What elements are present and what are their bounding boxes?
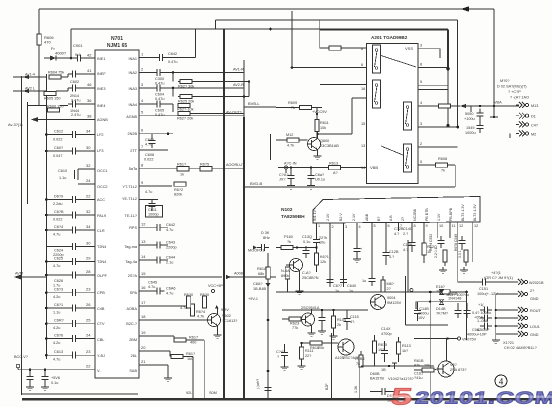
- svg-text:2.2 0.1: 2.2 0.1: [434, 248, 438, 258]
- svg-text:2.1V: 2.1V: [326, 213, 330, 221]
- node AV1-L input row: [13, 68, 95, 84]
- svg-text:T2N4: T2N4: [97, 245, 106, 249]
- node circled page number 41: [495, 375, 507, 387]
- svg-text:22: 22: [86, 194, 91, 199]
- svg-text:C612: C612: [54, 130, 63, 134]
- svg-text:2.47u: 2.47u: [71, 113, 81, 117]
- svg-text:R6?0: R6?0: [184, 293, 193, 297]
- svg-text:+4?(1: +4?(1: [491, 271, 501, 275]
- svg-text:C6A6: C6A6: [166, 287, 176, 291]
- svg-text:4000u+10P: 4000u+10P: [467, 333, 487, 337]
- svg-text:N-4A: N-4A: [281, 269, 290, 273]
- svg-text:4.?: 4.?: [403, 248, 408, 252]
- svg-text:VBA: VBA: [494, 101, 502, 105]
- capacitor C644 pin14 row: [139, 254, 175, 265]
- capacitor C643 pin13 row: [139, 239, 177, 250]
- svg-text:9 4: 9 4: [75, 53, 80, 57]
- svg-text:6: 6: [388, 224, 390, 228]
- svg-text:20k: 20k: [318, 346, 324, 350]
- svg-text:3: 3: [420, 122, 422, 126]
- diode D41B: [439, 292, 461, 304]
- svg-text:R6?5: R6?5: [378, 343, 387, 347]
- svg-text:400: 400: [190, 341, 196, 345]
- svg-text:C115: C115: [350, 315, 359, 319]
- svg-text:1N4148: 1N4148: [448, 297, 461, 301]
- svg-text:4.7k: 4.7k: [287, 144, 294, 148]
- svg-text:C602: C602: [70, 80, 79, 84]
- svg-text:68k: 68k: [258, 272, 264, 276]
- svg-text:C6?6: C6?6: [54, 334, 63, 338]
- svg-text:2: 2: [332, 225, 334, 229]
- svg-text:22: 22: [86, 364, 91, 369]
- svg-text:R62?-10k: R62?-10k: [177, 108, 194, 112]
- capacitor C630 row: [45, 333, 95, 346]
- svg-text:890k: 890k: [281, 274, 289, 278]
- svg-text:M6?: M6?: [387, 282, 394, 286]
- svg-text:M?0?: M?0?: [500, 79, 510, 83]
- svg-text:R61B: R61B: [414, 359, 424, 363]
- svg-text:C613: C613: [54, 350, 63, 354]
- capacitor C150 pin8: [403, 231, 416, 252]
- svg-text:30: 30: [86, 241, 91, 246]
- capacitor C628 row: [45, 302, 95, 315]
- wire second supply row: [416, 301, 467, 310]
- svg-text:1.3K: 1.3K: [354, 385, 358, 393]
- svg-text:Av-3?(1): Av-3?(1): [8, 123, 23, 127]
- svg-text:9.2V: 9.2V: [221, 308, 229, 312]
- svg-text:R61A: R61A: [257, 267, 267, 271]
- connector XS202 pin ROUT: [515, 307, 541, 313]
- svg-text:100u(+..12V: 100u(+..12V: [477, 292, 498, 296]
- svg-text:6: 6: [361, 63, 363, 67]
- svg-text:D41B: D41B: [448, 292, 458, 296]
- svg-text:Q600: Q600: [320, 139, 329, 143]
- resistor R631 bottom pair: [200, 293, 209, 308]
- svg-text:5050: 5050: [465, 112, 473, 116]
- svg-text:1.-05A: 1.-05A: [477, 319, 489, 323]
- svg-text:C151: C151: [479, 287, 488, 291]
- svg-text:4.7u: 4.7u: [53, 358, 60, 362]
- capacitor C616 decoupling: [41, 370, 60, 391]
- svg-text:25C8B?N: 25C8B?N: [302, 276, 319, 280]
- wire top bus: [39, 6, 494, 117]
- capacitor C610 row pin32: [58, 163, 95, 180]
- svg-text:B2 V: B2 V: [339, 213, 343, 221]
- svg-text:32: 32: [86, 209, 91, 214]
- wire A201 pin2 row: [418, 142, 458, 147]
- svg-text:4: 4: [420, 101, 422, 105]
- svg-text:D 3K: D 3K: [261, 231, 270, 235]
- svg-text:10u: 10u: [319, 241, 325, 245]
- svg-text:4?.: 4?.: [350, 320, 355, 324]
- svg-text:IN1 1V: IN1 1V: [313, 209, 317, 221]
- svg-text:B2F: B2F: [325, 383, 329, 390]
- wire second bus: [216, 20, 458, 127]
- svg-text:11: 11: [452, 224, 456, 228]
- capacitor C620 row: [45, 209, 95, 222]
- svg-text:M13: M13: [531, 104, 538, 108]
- capacitor C629 row: [45, 318, 95, 331]
- svg-text:AV2 L: AV2 L: [25, 87, 35, 91]
- wire vertical 359 to bottom: [354, 367, 360, 398]
- svg-text:21: 21: [141, 359, 146, 364]
- svg-text:C14X: C14X: [381, 327, 391, 331]
- svg-text:4: 4: [359, 225, 361, 229]
- svg-text:BVD-B: BVD-B: [250, 181, 263, 186]
- svg-text:2k: 2k: [337, 323, 341, 327]
- svg-text:C642: C642: [166, 223, 175, 227]
- wire right mid vertical bus: [243, 60, 245, 399]
- op-amp U1 IC N701 NJM2165 body: [95, 36, 139, 378]
- capacitor C146: [276, 344, 289, 371]
- node AV2-L input row: [13, 82, 95, 103]
- svg-text:V104: V104: [388, 377, 397, 381]
- capacitor C615 decoupling: [26, 370, 34, 391]
- capacitor C646 pin16 row: [139, 285, 176, 296]
- wire vertical 331 to bottom: [325, 333, 332, 398]
- svg-text:SAB: SAB: [129, 369, 137, 373]
- svg-text:2N2B: 2N2B: [128, 132, 138, 136]
- svg-text:1k?: 1k?: [402, 349, 408, 353]
- svg-text:1.1V: 1.1V: [437, 213, 441, 221]
- svg-text:R605 150: R605 150: [44, 97, 60, 101]
- svg-text:2.?: 2.?: [403, 232, 408, 236]
- svg-text:R611: R611: [320, 121, 329, 125]
- ground bottom right: [492, 337, 500, 344]
- svg-text:R111: R111: [305, 349, 314, 353]
- svg-text:INA4: INA4: [129, 103, 137, 107]
- svg-text:C12B: C12B: [389, 250, 399, 254]
- svg-text:C300: C300: [155, 77, 164, 81]
- node BCC-V supply row pin22: [14, 355, 95, 371]
- resistor R609 top: [276, 101, 327, 115]
- svg-text:2?: 2?: [401, 217, 405, 221]
- svg-text:26L: 26L: [131, 354, 137, 358]
- wire third bus: [71, 28, 450, 127]
- svg-text:4.7u: 4.7u: [148, 285, 155, 289]
- svg-text:C625: C625: [54, 257, 63, 261]
- svg-text:3: 3: [420, 44, 422, 48]
- svg-text:1B: 1B: [381, 368, 386, 372]
- svg-text:R623: R623: [290, 322, 299, 326]
- svg-text:BVB-L: BVB-L: [248, 101, 260, 106]
- svg-text:ACC: ACC: [97, 198, 105, 202]
- svg-text:SPA: SPA: [130, 291, 138, 295]
- connector XS202 pin 3: [515, 315, 528, 321]
- resistor R623: [282, 317, 301, 330]
- svg-text:24: 24: [86, 333, 91, 338]
- svg-text:?K?M?: ?K?M?: [436, 312, 448, 316]
- svg-text:?C1613?: ?C1613?: [222, 319, 237, 323]
- IC N102 pin name labels: [313, 204, 477, 221]
- transistor V601: [286, 259, 319, 295]
- svg-text:NC2BB: NC2BB: [413, 208, 417, 221]
- wire A201 pin3b row: [418, 122, 459, 128]
- svg-text:BLT3 1.3V: BLT3 1.3V: [473, 204, 477, 221]
- svg-text:R617: R617: [189, 336, 198, 340]
- svg-text:?k: ?k: [287, 240, 291, 244]
- svg-text:PB-BPB: PB-BPB: [449, 207, 453, 221]
- svg-text:7k: 7k: [356, 362, 360, 366]
- svg-text:0.47u: 0.47u: [155, 97, 165, 101]
- svg-text:R6?4: R6?4: [196, 310, 205, 314]
- svg-text:17: 17: [141, 300, 146, 305]
- resistor R603 2.2k: [381, 276, 394, 292]
- svg-text:46: 46: [87, 82, 92, 87]
- resistor R618b 20k: [302, 341, 338, 350]
- svg-text:A?C-IN: A?C-IN: [284, 162, 297, 166]
- svg-text:P160: P160: [284, 235, 293, 239]
- node VCC+9P label: [208, 284, 223, 293]
- svg-text:X1?21: X1?21: [503, 341, 514, 345]
- svg-text:OCC1: OCC1: [97, 169, 108, 173]
- svg-text:R113: R113: [402, 344, 411, 348]
- capacitor C154 series: [477, 315, 492, 333]
- svg-text:820k: 820k: [174, 193, 182, 197]
- svg-text:0.022: 0.022: [144, 158, 154, 162]
- svg-text:16: 16: [141, 285, 146, 290]
- svg-text:25: 25: [86, 318, 91, 323]
- svg-text:36: 36: [87, 98, 92, 103]
- svg-text:W2021B: W2021B: [529, 281, 544, 285]
- svg-text:7k: 7k: [291, 106, 295, 110]
- node X1721 label: [503, 341, 537, 350]
- svg-text:C-A?: C-A?: [302, 271, 311, 275]
- svg-text:INA1: INA1: [129, 57, 137, 61]
- svg-text:AV-OUT1: AV-OUT1: [226, 111, 242, 115]
- wire A201 pin5 thick: [418, 80, 448, 85]
- svg-text:3.3 1: 3.3 1: [458, 250, 462, 258]
- svg-text:C6?4: C6?4: [54, 225, 63, 229]
- svg-text:22?k: 22?k: [319, 236, 327, 240]
- capacitor C624 row: [46, 241, 95, 258]
- svg-text:2.1u: 2.1u: [166, 261, 173, 265]
- svg-text:9004: 9004: [387, 296, 395, 300]
- svg-text:14: 14: [141, 254, 146, 259]
- svg-text:AOORLUT: AOORLUT: [226, 163, 245, 167]
- svg-text:INA3: INA3: [129, 87, 137, 91]
- diode D6A: [248, 282, 271, 301]
- svg-text:15: 15: [361, 122, 365, 126]
- svg-text:0.1u: 0.1u: [51, 381, 58, 385]
- svg-text:12k: 12k: [320, 260, 326, 264]
- svg-text:4.10BP: 4.10BP: [477, 328, 490, 332]
- connector XS202 pin LOUT: [515, 323, 540, 329]
- svg-text:C605: C605: [155, 109, 164, 113]
- svg-text:28: 28: [86, 269, 91, 274]
- svg-text:INE1: INE1: [97, 57, 105, 61]
- svg-text:+1(: +1(: [478, 303, 484, 307]
- svg-text:TE-1L?: TE-1L?: [125, 214, 137, 218]
- svg-text:22?: 22?: [305, 354, 311, 358]
- resistor R605b: [355, 351, 365, 367]
- connector XS202 pin GND: [515, 331, 539, 337]
- svg-text:5: 5: [420, 160, 422, 164]
- capacitor C613 row: [45, 349, 95, 362]
- svg-text:VCC+9P: VCC+9P: [208, 284, 223, 288]
- connector XS201 pin C4: [516, 122, 538, 128]
- svg-text:2?: 2?: [387, 287, 391, 291]
- node AGND arrow row pin38: [8, 114, 95, 128]
- svg-text:4.7u: 4.7u: [53, 264, 60, 268]
- svg-text:24: 24: [86, 178, 91, 183]
- resistor R602 pin6: [383, 231, 399, 265]
- svg-text:1.1u: 1.1u: [53, 311, 60, 315]
- svg-text:C610: C610: [58, 169, 67, 173]
- resistor R627: [173, 103, 244, 120]
- svg-text:42: 42: [87, 53, 92, 58]
- svg-text:R61?: R61?: [186, 352, 195, 356]
- svg-text:5aTa: 5aTa: [129, 167, 138, 171]
- svg-text:4.?: 4.?: [389, 255, 394, 259]
- capacitor C149: [436, 303, 491, 320]
- resistor R606: [37, 9, 55, 105]
- wire A201 vss thick: [418, 63, 448, 68]
- svg-text:PAL9: PAL9: [97, 214, 106, 218]
- IC N102 pin numbers: [318, 224, 478, 229]
- capacitor pin4 gnd: [353, 231, 363, 263]
- svg-text:0.022: 0.022: [53, 138, 63, 142]
- svg-text:AGNB: AGNB: [97, 118, 108, 122]
- resistor R111 22k: [298, 342, 314, 370]
- svg-text:R613: R613: [329, 162, 338, 166]
- resistor R615 audio out row: [200, 163, 245, 171]
- svg-text:D14B: D14B: [436, 307, 446, 311]
- svg-text:A?: A?: [333, 171, 338, 175]
- svg-text:C611: C611: [148, 208, 157, 212]
- svg-text:CBL: CBL: [97, 338, 104, 342]
- capacitor C153 series: [478, 303, 492, 314]
- svg-text:9: 9: [426, 224, 428, 228]
- svg-text:29: 29: [86, 256, 91, 261]
- svg-text:V602: V602: [222, 314, 231, 318]
- capacitor C148 1000u: [416, 303, 462, 320]
- wire vertical 466 down: [466, 292, 468, 340]
- svg-text:C1?B: C1?B: [403, 243, 413, 247]
- svg-text:RPS: RPS: [129, 226, 137, 230]
- capacitor C151 output: [477, 271, 516, 296]
- capacitor C621 row: [45, 224, 95, 237]
- svg-text:2S?A: 2S?A: [128, 274, 138, 278]
- node E16 labels: [436, 285, 469, 297]
- resistor R113 1k: [396, 337, 410, 362]
- node BVB-L branch: [244, 101, 276, 160]
- resistor R630 bottom pair: [184, 293, 193, 308]
- svg-text:? -(A? 1AO: ? -(A? 1AO: [510, 96, 529, 100]
- svg-text:13: 13: [141, 239, 146, 244]
- svg-text:C140: C140: [403, 227, 412, 231]
- capacitor C649 pin3: [340, 231, 356, 293]
- svg-text:C608: C608: [145, 153, 154, 157]
- svg-text:VR075V: VR075V: [462, 338, 477, 342]
- svg-text:10V: 10V: [418, 316, 425, 320]
- svg-text:2N14: 2N14: [70, 94, 79, 98]
- svg-text:ABB: ABB: [365, 213, 369, 221]
- svg-text:1000u: 1000u: [465, 131, 476, 135]
- svg-text:C901: C901: [73, 43, 83, 48]
- svg-text:D60B: D60B: [370, 372, 380, 376]
- svg-text:1u: 1u: [349, 289, 353, 293]
- svg-text:?41u: ?41u: [414, 376, 422, 380]
- resistor R617 audio out row: [139, 163, 200, 177]
- wire top row bottom center: [282, 309, 368, 311]
- resistor R607 pin4 row: [418, 101, 519, 109]
- svg-text:A008: A008: [234, 272, 243, 276]
- svg-text:AV2-R: AV2-R: [233, 83, 244, 87]
- capacitor C610b row pin24: [78, 178, 95, 184]
- svg-text:2?a11?3?: 2?a11?3?: [397, 377, 414, 381]
- capacitor C617 row pin30: [45, 145, 95, 158]
- svg-text:C645: C645: [148, 281, 157, 285]
- diode V601: [44, 46, 72, 61]
- svg-text:2.1V: 2.1V: [352, 213, 356, 221]
- svg-text:3: 3: [345, 225, 347, 229]
- svg-text:ROUT: ROUT: [530, 309, 541, 313]
- svg-text:0.47u: 0.47u: [168, 60, 178, 64]
- capacitor C641 pin5: [362, 231, 376, 286]
- svg-text:(OR C? JM 9?(1): (OR C? JM 9?(1): [484, 276, 514, 280]
- svg-text:4.7k: 4.7k: [197, 315, 204, 319]
- transistor A105: [335, 339, 362, 360]
- svg-text:CPB: CPB: [97, 291, 105, 295]
- resistor RN4A: [281, 267, 290, 292]
- svg-text:YE-T1L2: YE-T1L2: [122, 197, 137, 201]
- svg-text:U0.1u: U0.1u: [315, 178, 325, 182]
- connector XS201 pin D1: [516, 113, 536, 119]
- svg-text:8: 8: [420, 63, 422, 67]
- capacitor C128 right pin9: [394, 227, 424, 243]
- svg-text:10k: 10k: [424, 364, 430, 368]
- svg-text:C4B: C4B: [97, 307, 105, 311]
- svg-text:D1: D1: [531, 115, 536, 119]
- svg-text:INEF: INEF: [97, 72, 106, 76]
- svg-text:8: 8: [414, 224, 416, 228]
- svg-text:5: 5: [389, 383, 414, 407]
- svg-text:BLT3 1.3V: BLT3 1.3V: [461, 204, 465, 221]
- svg-text:15: 15: [141, 271, 146, 276]
- svg-text:R61?: R61?: [177, 163, 186, 167]
- svg-text:T2N4: T2N4: [97, 260, 106, 264]
- svg-text:4.2u: 4.2u: [53, 295, 60, 299]
- svg-text:?: ?: [277, 355, 279, 359]
- svg-text:C640: C640: [347, 284, 356, 288]
- svg-text:4.2u: 4.2u: [53, 326, 60, 330]
- svg-text:4: 4: [499, 377, 504, 387]
- svg-text:26: 26: [86, 302, 91, 307]
- resistor R625: [173, 88, 249, 104]
- svg-text:87k: 87k: [414, 364, 420, 368]
- svg-text:13: 13: [361, 144, 365, 148]
- svg-text:4.7u: 4.7u: [166, 228, 173, 232]
- svg-text:470: 470: [44, 40, 51, 45]
- svg-text:M12: M12: [286, 133, 293, 137]
- resistor R624 pin17 row: [139, 300, 205, 319]
- svg-text:18: 18: [141, 314, 146, 319]
- svg-text:+5V6: +5V6: [51, 376, 60, 380]
- capacitor C300 pin2 row: [139, 67, 244, 86]
- transistor V606: [437, 339, 466, 378]
- svg-text:C644: C644: [166, 256, 175, 260]
- svg-text:N102: N102: [281, 207, 293, 213]
- wire vertical 430 down: [429, 292, 431, 398]
- svg-text:AGNB: AGNB: [126, 115, 137, 119]
- capacitor C549 pin11: [450, 231, 468, 274]
- svg-text:TA8259BH: TA8259BH: [281, 214, 305, 220]
- capacitor C607 pin6 row: [139, 128, 173, 148]
- svg-text:NJM1 65: NJM1 65: [107, 43, 128, 49]
- svg-text:GND: GND: [530, 333, 539, 337]
- transistor V603 power: [371, 295, 402, 310]
